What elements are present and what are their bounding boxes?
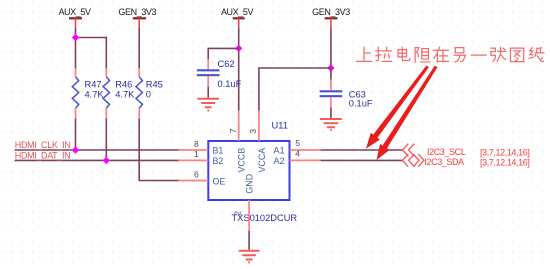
power symbol GEN_3V3 (right, over C63)	[312, 7, 350, 28]
ground under C63	[320, 119, 342, 130]
svg-text:HDMI_DAT_IN: HDMI_DAT_IN	[15, 151, 71, 161]
svg-text:6: 6	[194, 170, 199, 180]
ground under C62	[197, 99, 219, 111]
pin 5 A1	[290, 149, 321, 151]
svg-text:5: 5	[295, 138, 300, 148]
svg-text:0.1uF: 0.1uF	[218, 79, 242, 89]
op-amp/level-shifter U11 TXS0102DCUR body	[208, 141, 289, 200]
svg-text:VCCB: VCCB	[237, 148, 247, 173]
svg-text:7: 7	[228, 128, 238, 133]
svg-text:3: 3	[248, 129, 258, 134]
wire HDMI_DAT_IN horizontal	[15, 159, 179, 161]
svg-text:GEN_3V3: GEN_3V3	[312, 7, 350, 17]
wire AUX_5V down to junction J1	[75, 28, 77, 38]
off-sheet connector chevrons I2C3_SCL	[403, 144, 415, 157]
char 在	[433, 47, 449, 62]
off-sheet connector chevrons I2C3_SDA (bidirectional)	[403, 154, 424, 167]
char 上	[357, 47, 372, 61]
power symbol GEN_3V3 (left, over R45)	[118, 7, 156, 28]
svg-text:0.1uF: 0.1uF	[349, 98, 373, 108]
pin 4 A2	[290, 159, 321, 161]
wire AUX_5V (center) down to VCCB pin 7	[238, 28, 240, 111]
char 电	[398, 47, 410, 60]
svg-text:HDMI_CLK_IN: HDMI_CLK_IN	[15, 140, 71, 150]
resistor R47 4.7K	[72, 68, 104, 118]
char 纸	[529, 47, 544, 61]
wire C63 to ground	[330, 108, 332, 119]
svg-text:U11: U11	[272, 120, 288, 130]
wire J1 branch right to R46 column	[75, 37, 107, 39]
char 阻	[415, 48, 430, 63]
char 一	[471, 54, 486, 56]
svg-text:OE: OE	[213, 176, 226, 186]
svg-text:R45: R45	[146, 79, 163, 89]
svg-text:1: 1	[194, 149, 199, 159]
annotation text (CJK, drawn as strokes): 上拉电阻在另一张图纸	[357, 47, 545, 62]
svg-text:GND: GND	[245, 174, 255, 194]
capacitor C62 0.1uF	[197, 59, 242, 89]
wire down to R46 top	[105, 37, 107, 69]
resistor R46 4.7K	[103, 68, 135, 118]
svg-text:VCCA: VCCA	[257, 148, 267, 173]
pin 3 VCCA (top)	[258, 111, 260, 142]
wire J3 left and down to VCCA pin 3	[259, 68, 331, 111]
svg-text:B2: B2	[213, 156, 224, 166]
svg-text:A1: A1	[273, 146, 284, 156]
junction J4 R47/HDMI_CLK_IN	[72, 146, 79, 153]
wire R46 bottom to HDMI_DAT_IN net	[105, 119, 107, 161]
svg-text:4: 4	[295, 149, 300, 159]
char 张	[491, 47, 506, 62]
svg-text:4.7K: 4.7K	[85, 89, 105, 99]
junction J1 on AUX_5V node	[72, 34, 79, 41]
svg-text:B1: B1	[213, 146, 224, 156]
resistor R45 0	[136, 68, 163, 118]
svg-text:I2C3_SCL: I2C3_SCL	[427, 147, 466, 157]
red annotation arrow 2 (to A2 wire)	[377, 66, 438, 160]
wire GEN_3V3 down to R45 top	[138, 28, 140, 68]
wire R47 bottom to HDMI_CLK_IN net	[75, 119, 77, 151]
svg-text:[3,7,12,14,16]: [3,7,12,14,16]	[480, 158, 529, 168]
svg-text:R46: R46	[115, 79, 132, 89]
wire J1 down to R47 top	[75, 38, 77, 69]
char 另	[454, 48, 465, 62]
pin 2 GND (bottom)	[248, 200, 250, 231]
wire GEN_3V3 (right) down to junction J3	[330, 28, 332, 68]
pin 1 B2	[179, 159, 209, 161]
svg-text:GEN_3V3: GEN_3V3	[118, 7, 156, 17]
junction J5 R46/HDMI_DAT_IN	[103, 157, 110, 164]
svg-text:R47: R47	[85, 79, 102, 89]
junction J3 C63/VCCA tap	[327, 64, 334, 71]
svg-text:8: 8	[194, 139, 199, 149]
svg-text:AUX_5V: AUX_5V	[221, 7, 254, 17]
pin 6 OE	[179, 180, 209, 182]
power symbol AUX_5V (left, over R47)	[58, 7, 91, 28]
svg-text:[3,7,12,14,16]: [3,7,12,14,16]	[480, 147, 529, 157]
char 拉	[376, 47, 392, 61]
wire J2 left and down to C62	[208, 48, 239, 59]
ground under U11	[239, 251, 260, 263]
capacitor C63 0.1uF	[320, 68, 373, 108]
wire C62 to ground	[207, 87, 209, 98]
svg-text:2: 2	[233, 211, 243, 216]
svg-text:0: 0	[146, 89, 151, 99]
wire A2 to I2C3_SDA connector	[321, 159, 403, 161]
pin 8 B1	[179, 149, 209, 151]
junction J2 C62 tap	[235, 45, 242, 52]
wire GND pin to ground	[248, 231, 250, 250]
red annotation arrow 1 (to A1 wire)	[366, 66, 429, 149]
pin 7 VCCB (top)	[238, 111, 240, 142]
svg-text:I2C3_SDA: I2C3_SDA	[424, 157, 464, 167]
svg-text:4.7K: 4.7K	[115, 89, 135, 99]
wire HDMI_CLK_IN horizontal	[15, 149, 179, 151]
svg-text:C62: C62	[218, 59, 235, 69]
char 图	[510, 48, 523, 61]
svg-text:AUX_5V: AUX_5V	[58, 7, 91, 17]
wire A1 to I2C3_SCL connector	[321, 149, 403, 151]
svg-text:A2: A2	[273, 156, 284, 166]
power symbol AUX_5V (center, over VCCB)	[221, 7, 254, 28]
wire R45 bottom down and right to OE pin	[139, 119, 178, 181]
